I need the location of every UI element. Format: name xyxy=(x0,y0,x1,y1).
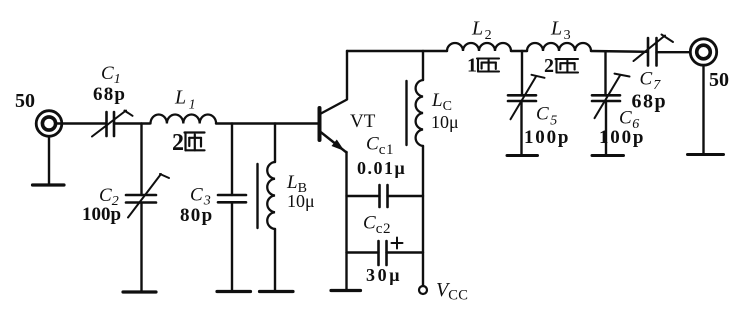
svg-text:1: 1 xyxy=(467,55,477,77)
ground (C5) xyxy=(507,154,538,157)
svg-text:68p: 68p xyxy=(93,84,126,105)
wire emitter down xyxy=(345,152,347,291)
svg-text:100p: 100p xyxy=(524,127,570,148)
svg-text:10μ: 10μ xyxy=(431,112,459,132)
svg-text:30μ: 30μ xyxy=(366,265,402,285)
wire C7 to output connector xyxy=(657,51,691,53)
inductor LB (10u) xyxy=(258,162,276,229)
svg-text:2: 2 xyxy=(544,55,554,77)
capacitor C6 (variable 100p) xyxy=(592,74,630,119)
inductor L1 xyxy=(151,115,217,124)
wire C2 to ground xyxy=(140,203,142,293)
wire node to C3 xyxy=(231,124,233,196)
inductor LC (10u) xyxy=(407,80,424,146)
svg-text:10μ: 10μ xyxy=(287,191,315,211)
svg-text:68p: 68p xyxy=(632,91,668,113)
capacitor C1 (trimmer 68p) xyxy=(92,111,133,137)
wire node to C5 xyxy=(521,51,523,96)
ground (C2) xyxy=(123,290,156,293)
ground (C3) xyxy=(217,290,251,293)
capacitor C3 (80p) xyxy=(218,195,246,202)
svg-text:100p: 100p xyxy=(82,204,121,225)
terminal VCC xyxy=(419,286,427,294)
wire node to C2 xyxy=(140,124,142,196)
ground (LB) xyxy=(260,290,294,293)
wire connector J1 to ground xyxy=(48,136,50,185)
wire L3 to C7 / node C6 xyxy=(591,50,648,53)
svg-text:VT: VT xyxy=(350,111,376,132)
wire J1 to C1 xyxy=(56,122,106,124)
ground (C6) xyxy=(592,154,624,157)
transistor VT (NPN) xyxy=(320,100,348,153)
wire C3 to ground xyxy=(231,202,233,291)
ground (output connector) xyxy=(688,153,724,156)
label 2匝 (L3 turns) xyxy=(544,55,578,77)
wire node to C6 xyxy=(604,51,606,95)
wire top rail collector to L2 xyxy=(347,50,447,52)
wire J2 to ground xyxy=(702,66,704,155)
wire C6 to ground xyxy=(605,101,607,156)
connector J1 (input) xyxy=(36,111,62,137)
wire LC down to VCC xyxy=(422,146,424,286)
wire C1 to L1 / node C2 xyxy=(114,122,150,124)
wire L2 to L3 / node C5 xyxy=(511,50,527,52)
inductor L3 xyxy=(527,43,591,51)
label 1匝 (L2 turns) xyxy=(467,55,499,77)
svg-text:50: 50 xyxy=(709,69,729,91)
capacitor Cc1 (0.01u) xyxy=(347,185,424,207)
wire L1 to transistor base xyxy=(216,122,318,124)
svg-text:2: 2 xyxy=(172,130,184,156)
label 2匝 (L1 turns) xyxy=(172,130,205,156)
capacitor C5 (variable 100p) xyxy=(508,75,545,120)
svg-text:50: 50 xyxy=(15,90,35,112)
svg-text:80p: 80p xyxy=(180,205,213,226)
svg-text:0.01μ: 0.01μ xyxy=(357,158,406,178)
wire C5 to ground xyxy=(520,101,522,156)
wire rail to LC xyxy=(422,51,424,80)
wire node to LB xyxy=(274,124,276,163)
wire LB to ground xyxy=(274,229,276,292)
capacitor C7 (trimmer 68p) xyxy=(634,35,674,66)
connector J2 (output) xyxy=(690,39,716,65)
capacitor Cc2 (30u electrolytic) xyxy=(347,238,424,266)
ground (input connector) xyxy=(33,183,65,186)
wire collector to top rail xyxy=(346,51,348,99)
capacitor C2 (variable 100p) xyxy=(126,174,169,218)
ground (emitter) xyxy=(331,289,361,292)
inductor L2 xyxy=(447,43,511,51)
